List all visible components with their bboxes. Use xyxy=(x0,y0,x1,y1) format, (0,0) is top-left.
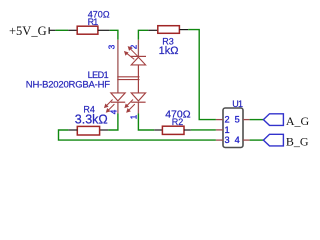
U1 pin 4 stub xyxy=(243,139,250,141)
LED1 bottom-right emission arrows xyxy=(125,100,135,113)
LED1 internal rails xyxy=(117,77,139,80)
U1 pin numbers xyxy=(225,115,240,146)
LED1 bottom-right diode (triangle pointing down + bar) xyxy=(131,93,145,114)
svg-text:1: 1 xyxy=(130,114,139,119)
wire U1 pin 5 to port A_G xyxy=(250,119,264,121)
svg-text:3: 3 xyxy=(108,44,117,49)
LED1 bottom-left emission arrows xyxy=(105,100,115,113)
svg-text:NH-B2020RGBA-HF: NH-B2020RGBA-HF xyxy=(26,80,111,91)
LED1 pin 3 line xyxy=(117,40,119,93)
svg-text:3.3kΩ: 3.3kΩ xyxy=(75,112,108,126)
wire port to R1 xyxy=(55,29,68,31)
svg-text:R2: R2 xyxy=(172,117,184,127)
wire LED pin 1 to R2 xyxy=(138,114,154,131)
U1 pin 5 stub xyxy=(243,119,250,121)
svg-text:2: 2 xyxy=(225,115,230,125)
port A_G xyxy=(263,114,309,128)
svg-text:1kΩ: 1kΩ xyxy=(159,45,179,57)
resistor R3 xyxy=(148,26,188,57)
svg-text:U1: U1 xyxy=(232,99,243,109)
svg-text:+5V_G: +5V_G xyxy=(9,24,47,38)
svg-text:B_G: B_G xyxy=(286,135,309,149)
resistor R1 xyxy=(68,9,110,34)
wire LED pin 4 to R4 xyxy=(108,114,118,131)
svg-text:R1: R1 xyxy=(88,17,99,27)
U1 pin 2 stub xyxy=(216,119,223,121)
svg-text:A_G: A_G xyxy=(286,114,310,128)
wire LED pin 2 up to R3 xyxy=(138,30,148,40)
U1 pin 3 stub xyxy=(216,139,223,141)
svg-text:LED1: LED1 xyxy=(88,70,109,80)
wire R2 to U1 pin 1 xyxy=(191,129,216,131)
svg-text:4: 4 xyxy=(110,109,119,114)
svg-text:5: 5 xyxy=(235,115,240,125)
LED1 bottom-left diode (triangle pointing down + bar) xyxy=(111,93,125,114)
LED1 top diode emission arrows xyxy=(125,47,138,60)
LED1 pin 2 line xyxy=(137,40,139,57)
resistor R4 xyxy=(68,105,108,136)
wire R1 to LED pin 3 xyxy=(110,30,118,40)
svg-text:4: 4 xyxy=(235,135,240,145)
connector U1 body xyxy=(223,99,243,148)
wire R4 down to bottom rail xyxy=(59,130,216,140)
wire R3 to U1 pin 2 xyxy=(188,30,216,120)
U1 pin 1 stub xyxy=(216,129,223,131)
svg-text:3: 3 xyxy=(225,135,230,145)
power port +5V_G xyxy=(9,24,55,38)
resistor R2 xyxy=(154,109,191,135)
port B_G xyxy=(263,134,309,148)
LED1 top diode (cathode bar + triangle pointing up) xyxy=(131,56,146,93)
wire U1 pin 4 to port B_G xyxy=(250,139,264,141)
svg-text:1: 1 xyxy=(225,125,230,135)
